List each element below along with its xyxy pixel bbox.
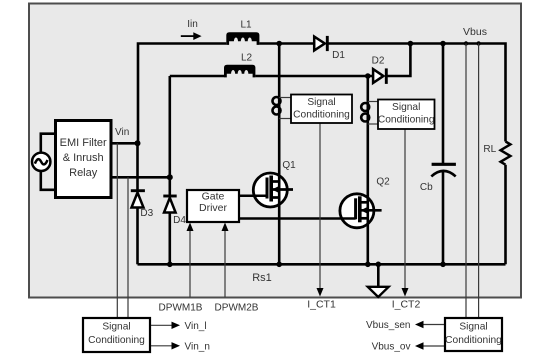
svg-text:Vin_n: Vin_n [185, 341, 210, 352]
svg-text:L1: L1 [240, 19, 252, 30]
svg-text:Signal: Signal [102, 322, 130, 333]
svg-text:EMI Filter: EMI Filter [60, 137, 107, 149]
svg-text:Signal: Signal [307, 97, 335, 108]
svg-text:DPWM1B: DPWM1B [159, 303, 203, 314]
svg-text:Vbus: Vbus [463, 26, 487, 38]
svg-text:Signal: Signal [459, 322, 487, 333]
svg-text:D2: D2 [372, 56, 385, 67]
svg-text:& Inrush: & Inrush [63, 152, 104, 164]
svg-text:Conditioning: Conditioning [88, 335, 145, 346]
svg-text:I_CT2: I_CT2 [392, 299, 421, 311]
svg-text:Signal: Signal [392, 102, 420, 113]
svg-text:I_CT1: I_CT1 [307, 299, 336, 311]
svg-text:Vin: Vin [115, 127, 129, 138]
svg-text:Vbus_sen: Vbus_sen [366, 320, 410, 331]
svg-text:Conditioning: Conditioning [293, 110, 350, 121]
svg-text:Cb: Cb [420, 182, 433, 193]
svg-text:D1: D1 [332, 50, 345, 61]
svg-text:Iin: Iin [187, 19, 198, 30]
svg-text:Q2: Q2 [376, 176, 390, 187]
svg-text:Vbus_ov: Vbus_ov [372, 342, 411, 353]
svg-text:L2: L2 [241, 52, 253, 63]
svg-text:Vin_l: Vin_l [185, 321, 207, 332]
svg-text:Q1: Q1 [282, 160, 296, 171]
svg-text:Relay: Relay [69, 167, 98, 179]
svg-text:DPWM2B: DPWM2B [215, 303, 259, 314]
svg-text:RL: RL [483, 144, 496, 155]
svg-text:Gate: Gate [202, 191, 225, 203]
svg-text:Conditioning: Conditioning [445, 335, 502, 346]
svg-text:Driver: Driver [199, 202, 228, 214]
svg-text:D4: D4 [173, 215, 186, 226]
svg-text:Conditioning: Conditioning [378, 115, 435, 126]
svg-text:D3: D3 [140, 208, 153, 219]
svg-text:Rs1: Rs1 [252, 272, 272, 284]
